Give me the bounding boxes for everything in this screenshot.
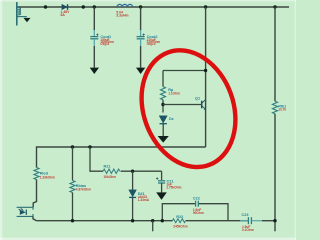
node (top rail junction at Cout2) [139, 5, 142, 8]
svg-text:4.87kOhm: 4.87kOhm [76, 187, 91, 191]
transistor Q1 [202, 99, 206, 110]
wire: D21 to bottom rail [132, 198, 134, 221]
wire: R21 branch from rail [90, 147, 103, 171]
node (rail / R21 branch) [88, 145, 91, 148]
wire: bottom rail (C23 to Rfb) [262, 220, 275, 222]
svg-text:R22: R22 [176, 215, 183, 219]
resistor R21 [103, 169, 120, 173]
node (Rp / Dz / base junction) [161, 103, 164, 106]
diode D1 [62, 4, 68, 10]
wire: C21 upper lead [161, 171, 163, 180]
svg-text:R21: R21 [104, 165, 111, 169]
wire: Rfb branch vertical [274, 7, 276, 101]
resistor Rled [34, 168, 39, 180]
value label L2 [116, 10, 128, 17]
wire: Rp upper lead [162, 71, 164, 87]
svg-text:Q1: Q1 [195, 97, 200, 101]
capacitor Cout1 [90, 34, 98, 39]
svg-text:Obj=3: Obj=3 [100, 42, 109, 46]
svg-text:0.1Ohm: 0.1Ohm [242, 228, 254, 232]
wire: zener network top [163, 70, 206, 72]
node (Rfb / bottom rail) [273, 219, 276, 222]
wire: bottom rail (left of R22) [37, 220, 173, 222]
node (top rail junction at Q1 branch) [204, 5, 207, 8]
node (top rail junction 2) [82, 5, 85, 8]
wire: Cout1 branch vertical [93, 7, 95, 30]
resistor Rfb [273, 101, 278, 113]
svg-text:1.1Ohm: 1.1Ohm [168, 92, 180, 96]
svg-text:3.3uHm: 3.3uHm [116, 14, 128, 18]
wire: C22 loop right leg [199, 204, 228, 221]
wire: C21 to ground [161, 183, 163, 192]
optocoupler LED U1 [17, 207, 33, 216]
wire: Cout2 to ground [140, 39, 142, 46]
node (rail / Rbias) [71, 145, 74, 148]
svg-text:90Ohm: 90Ohm [193, 211, 204, 215]
ground (C21) [156, 192, 167, 200]
resistor Rbias [70, 147, 75, 221]
node (Rbias / bottom rail) [71, 219, 74, 222]
wire: Cout1 to ground [93, 39, 95, 46]
resistor R22 [173, 219, 186, 223]
capacitor C21 [156, 177, 165, 183]
capacitor C23 [240, 217, 262, 224]
wire: lower-left rail [37, 147, 206, 168]
capacitor C22 [196, 201, 199, 207]
svg-text:1.33mA: 1.33mA [138, 198, 150, 202]
wire: Rfb to bottom rail and stub [274, 114, 276, 232]
svg-text:1.33kOhm: 1.33kOhm [40, 175, 55, 179]
node (stub / bottom rail) [151, 219, 154, 222]
resistor Rp [161, 87, 166, 100]
wire: D21 upper lead [132, 171, 134, 190]
wire: stub below rail [152, 221, 154, 232]
svg-text:Obj=3: Obj=3 [147, 42, 156, 46]
ground (Cout1) [90, 68, 99, 74]
diode Dz [159, 116, 167, 124]
wire: opto to bottom rail [33, 216, 37, 220]
wire: base wire [163, 104, 202, 106]
node (C22 left leg / bottom rail) [161, 219, 164, 222]
svg-text:245kOhm: 245kOhm [173, 225, 188, 229]
ground (Dz) [158, 136, 169, 143]
inductor L1 (input winding with bar) [17, 2, 27, 26]
wire: Cout2 branch vertical [140, 7, 142, 30]
node (R21 / D21 / C21) [131, 170, 134, 173]
svg-text:1.75kOhm: 1.75kOhm [166, 186, 181, 190]
value label D1 [61, 10, 71, 17]
wire: Rled to opto [33, 180, 36, 208]
wire: bottom rail (R22 to C23) [186, 220, 248, 222]
node (top rail junction at Rfb branch) [273, 5, 276, 8]
svg-text:8A: 8A [61, 13, 66, 17]
inductor L2 [117, 4, 133, 7]
node (D21 / bottom rail) [131, 219, 134, 222]
svg-text:C23: C23 [242, 213, 249, 217]
node (top rail junction at Cout1) [93, 5, 96, 8]
svg-text:13.7k: 13.7k [278, 108, 286, 112]
wire: top rail [17, 6, 289, 8]
node (top of Rp at main rail) [204, 69, 207, 72]
wire: C22 loop left leg [162, 204, 195, 221]
ground (input winding) [24, 18, 31, 22]
diode D21 [129, 190, 137, 198]
node (top rail junction 1) [44, 5, 47, 8]
svg-text:C22: C22 [193, 196, 200, 200]
edge fades (scan border) [0, 0, 2, 240]
wire: Dz to ground [162, 124, 164, 136]
wire: R21 to C21 node [121, 170, 162, 172]
capacitor Cout2 [137, 34, 145, 39]
svg-text:Dz: Dz [169, 117, 174, 121]
wire: main vertical (Q1 collector rail) [205, 7, 207, 147]
ground (Cout2) [136, 68, 145, 74]
wire: Rp lower lead [162, 100, 164, 113]
svg-text:10kOhm: 10kOhm [104, 175, 117, 179]
annotation: red highlight ellipse [126, 37, 251, 180]
